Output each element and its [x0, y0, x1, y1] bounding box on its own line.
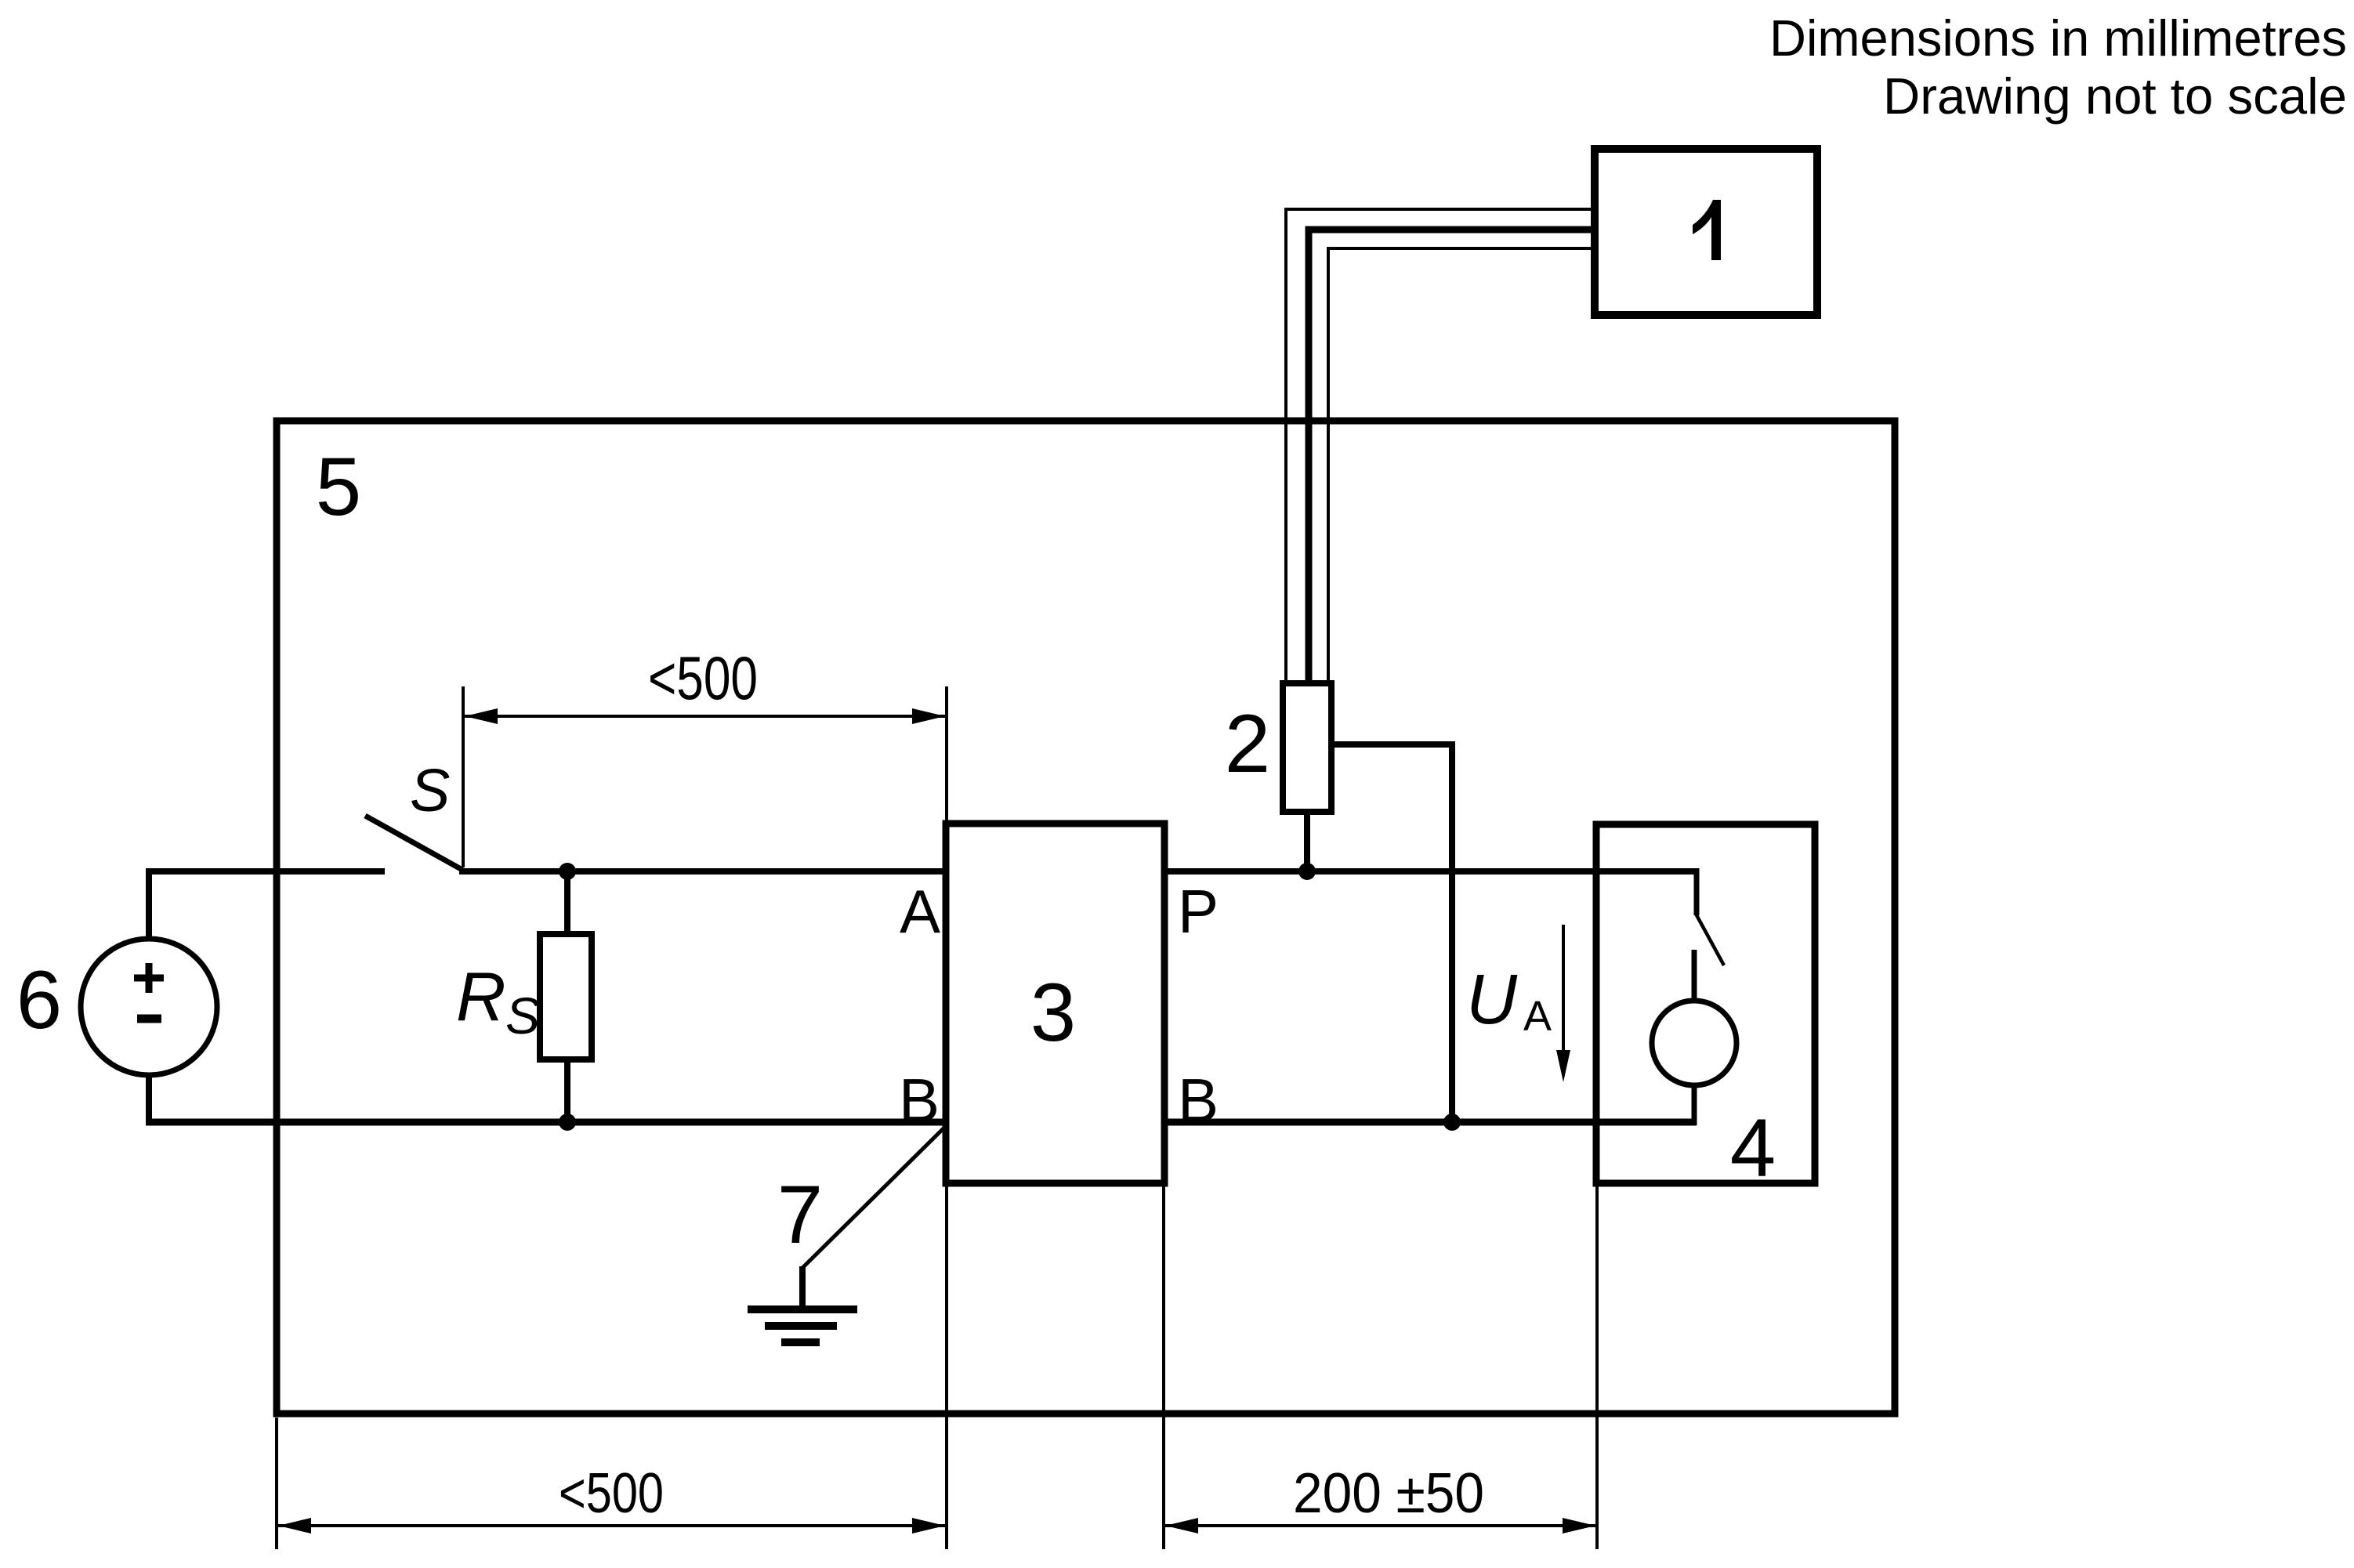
svg-text:<500: <500 — [648, 643, 758, 712]
dimension bottom extension line left — [275, 1418, 278, 1549]
svg-text:A: A — [900, 877, 940, 946]
dimension line bottom 200 +-50 — [1165, 1524, 1595, 1527]
svg-text:Drawing not to scale: Drawing not to scale — [1883, 67, 2347, 125]
switch blade in box 4 — [1696, 914, 1724, 965]
node junction dot bottom of Rs — [559, 1114, 576, 1131]
wire bottom rail B from source to box 3 — [146, 1119, 946, 1126]
probe 2 body — [1283, 683, 1331, 812]
dimension bottom extension line box3 left — [945, 1183, 948, 1549]
switch S blade — [365, 816, 462, 870]
svg-text:2: 2 — [1225, 698, 1270, 790]
svg-text:200 ±50: 200 ±50 — [1293, 1462, 1484, 1525]
node junction dot probe on P rail — [1298, 863, 1316, 880]
label 1 — [1693, 200, 1721, 260]
wire Rs top lead — [564, 871, 570, 934]
wire top rail from source to switch — [146, 868, 385, 875]
dimension line top <500 — [465, 715, 945, 718]
node junction dot reference lead on B rail — [1443, 1114, 1461, 1131]
wire Rs bottom lead — [564, 1059, 570, 1122]
wire top rail P from box 3 to box 4 switch — [1164, 868, 1697, 875]
ground bar 3 — [781, 1338, 820, 1346]
callout line 7 to ground node — [802, 1128, 943, 1268]
box 3 (DUT) — [946, 824, 1164, 1183]
svg-text:3: 3 — [1030, 967, 1076, 1059]
svg-text:S: S — [505, 987, 540, 1045]
node junction dot top of Rs — [559, 863, 576, 880]
dimension bottom extension line box3 right — [1162, 1183, 1165, 1549]
wire shielded cable outer line top — [1286, 209, 1595, 683]
dimension top extension line at box 3 — [945, 686, 948, 824]
svg-text:7: 7 — [777, 1169, 823, 1261]
svg-text:A: A — [1523, 993, 1552, 1040]
svg-text:P: P — [1178, 877, 1219, 946]
svg-text:Dimensions in millimetres: Dimensions in millimetres — [1769, 9, 2347, 67]
wire source top lead — [146, 871, 152, 939]
wire probe tip stub to node P — [1304, 812, 1310, 871]
svg-text:B: B — [899, 1066, 940, 1135]
wire lamp bottom stub — [1692, 1085, 1697, 1125]
ground bar 2 — [765, 1322, 837, 1330]
wire box4 switch lower stub — [1692, 950, 1697, 1003]
ground stem — [799, 1266, 806, 1309]
resistor Rs body — [540, 934, 592, 1059]
box 1 (instrument) — [1595, 149, 1817, 315]
wire box4 switch upper stub — [1694, 868, 1700, 915]
wire shielded cable core thick — [1309, 230, 1595, 683]
box 5 (shielded enclosure) — [277, 421, 1895, 1414]
svg-text:5: 5 — [316, 441, 361, 533]
lamp circle in box 4 — [1652, 1001, 1737, 1085]
polarity minus sign — [137, 1015, 161, 1023]
dimension top extension line at switch — [462, 686, 465, 867]
dimension bottom extension line box4 left — [1595, 1183, 1599, 1549]
arrow U_A direction — [1562, 925, 1565, 1062]
svg-text:R: R — [456, 958, 506, 1035]
ground bar 1 — [748, 1305, 857, 1313]
svg-text:6: 6 — [16, 954, 62, 1046]
svg-text:U: U — [1466, 961, 1518, 1039]
dimension line bottom <500 — [278, 1524, 945, 1527]
box 4 (load) — [1596, 824, 1815, 1183]
svg-text:4: 4 — [1730, 1103, 1776, 1194]
wire probe reference lead right then down to B rail — [1331, 744, 1452, 1122]
polarity plus sign — [134, 963, 164, 993]
source 6 circle — [81, 939, 217, 1075]
wire top rail A from switch to box 3 — [459, 868, 946, 875]
svg-text:<500: <500 — [559, 1462, 664, 1525]
svg-text:S: S — [410, 757, 450, 824]
wire shielded cable inner line bottom — [1328, 248, 1595, 683]
wire source bottom lead — [146, 1075, 152, 1122]
wire bottom rail B from box 3 to box 4 lamp — [1164, 1119, 1697, 1126]
